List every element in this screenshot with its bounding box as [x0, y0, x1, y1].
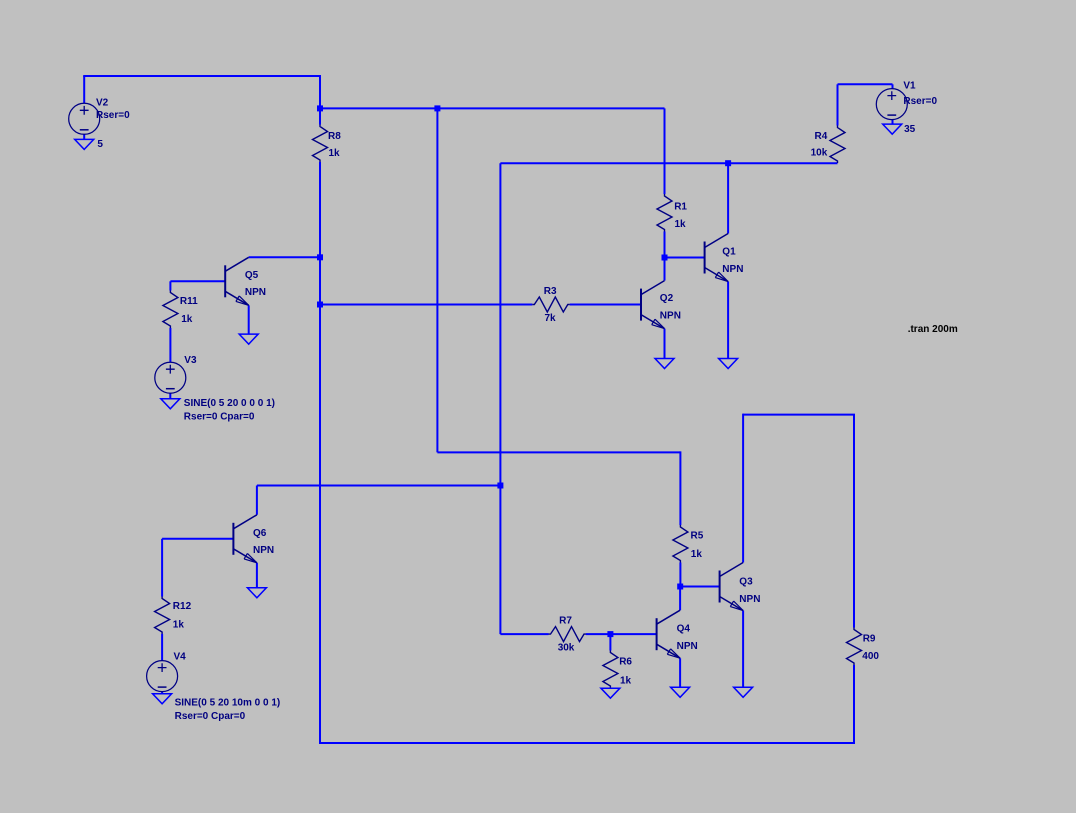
resistor R3 — [532, 297, 570, 312]
wire Q3 collector lead — [742, 414, 744, 563]
svg-text:Rser=0 Cpar=0: Rser=0 Cpar=0 — [175, 711, 246, 722]
svg-text:V2: V2 — [96, 97, 109, 108]
svg-text:R9: R9 — [863, 633, 876, 644]
ground Q5 emitter — [239, 334, 258, 344]
wire Q4 collector lead — [679, 587, 681, 611]
svg-text:NPN: NPN — [722, 264, 743, 275]
wire Q3 base — [680, 586, 719, 588]
wire Q5 emitter lead — [248, 305, 250, 334]
svg-text:R6: R6 — [619, 657, 632, 668]
resistor R5 — [673, 525, 688, 563]
svg-text:R4: R4 — [815, 131, 828, 142]
svg-text:Q5: Q5 — [245, 270, 259, 281]
node junction R8 top — [317, 105, 323, 111]
node junction Q6 collector — [497, 483, 503, 489]
svg-text:NPN: NPN — [253, 545, 274, 556]
wire V3 ground stem — [169, 393, 171, 399]
wire V4 ground stem — [161, 691, 163, 694]
wire node B vertical x437 — [436, 108, 438, 452]
wire bottom rail — [319, 742, 855, 744]
svg-text:V1: V1 — [903, 81, 916, 92]
node junction x437 top — [434, 105, 440, 111]
svg-text:Q1: Q1 — [722, 247, 736, 258]
wire R11 top lead — [169, 281, 171, 290]
node junction R7-R6-Q4 — [607, 631, 613, 637]
svg-text:R5: R5 — [691, 531, 704, 542]
svg-text:Rser=0 Cpar=0: Rser=0 Cpar=0 — [184, 411, 255, 422]
svg-text:R1: R1 — [674, 202, 687, 213]
svg-text:R8: R8 — [328, 131, 341, 142]
svg-text:Rser=0: Rser=0 — [96, 110, 130, 121]
transistor Q3 — [720, 563, 744, 611]
svg-text:NPN: NPN — [677, 641, 698, 652]
svg-text:10k: 10k — [811, 147, 828, 158]
svg-text:V4: V4 — [174, 652, 187, 663]
wire Q5 collector to node — [249, 256, 320, 258]
svg-text:R11: R11 — [180, 296, 198, 307]
svg-text:Q4: Q4 — [677, 623, 691, 634]
wire R4 top lead — [837, 84, 839, 125]
wire Q1 collector lead — [727, 163, 729, 233]
resistor R1 — [657, 194, 672, 232]
node junction Q1 collector — [725, 160, 731, 166]
voltage source V1 — [876, 89, 907, 120]
wire Q6 collector horizontal — [257, 485, 501, 487]
ground Q3 emitter — [734, 687, 753, 697]
ground V2 — [75, 139, 94, 149]
node junction R5-Q4-Q3 — [677, 584, 683, 590]
transistor Q5 — [225, 257, 249, 305]
wire R12 top lead — [161, 539, 163, 597]
svg-text:R12: R12 — [173, 601, 192, 612]
wire R1 bottom lead — [664, 232, 666, 258]
wire R9 bottom lead — [853, 665, 855, 744]
wire Q5 base — [170, 280, 225, 282]
resistor R8 — [313, 125, 328, 163]
resistor R11 — [163, 291, 178, 329]
wire Q1 base — [665, 257, 705, 259]
wire Q6 emitter lead — [256, 563, 258, 588]
wire Q3 emitter lead — [742, 611, 744, 688]
svg-text:1k: 1k — [329, 148, 341, 159]
transistor Q2 — [641, 281, 665, 329]
svg-text:NPN: NPN — [660, 310, 681, 321]
svg-text:Q6: Q6 — [253, 528, 267, 539]
wire horizontal to R5 branch — [437, 451, 680, 453]
svg-text:Rser=0: Rser=0 — [903, 96, 937, 107]
ground Q4 emitter — [671, 687, 690, 697]
svg-text:5: 5 — [97, 139, 103, 150]
svg-text:400: 400 — [862, 651, 879, 662]
wire Q6 collector lead — [256, 486, 258, 515]
wire R5 bottom lead — [679, 563, 681, 587]
wire V2 top lead — [83, 76, 85, 104]
wire R9 top lead — [853, 415, 855, 628]
wire left tall vertical R8 to bottom rail — [319, 162, 321, 744]
wire node to R3 left lead — [320, 304, 532, 306]
svg-text:1k: 1k — [181, 314, 193, 325]
ground R6 — [601, 688, 620, 698]
resistor R4 — [830, 126, 845, 164]
wire V1 top lead — [892, 84, 894, 88]
wire V2 ground stem — [83, 134, 85, 139]
svg-text:V3: V3 — [184, 355, 197, 366]
wire down into R8 — [319, 75, 321, 125]
wire Q1 row horizontal to R4 — [500, 162, 837, 164]
transistor Q4 — [657, 610, 681, 658]
svg-text:Q2: Q2 — [660, 293, 674, 304]
svg-text:35: 35 — [904, 124, 916, 135]
wire R3 right to Q2 base — [570, 304, 641, 306]
ground Q6 emitter — [247, 588, 266, 598]
resistor R6 — [603, 651, 618, 689]
svg-text:.tran 200m: .tran 200m — [908, 324, 958, 335]
svg-text:7k: 7k — [545, 313, 557, 324]
svg-text:SINE(0 5 20 0 0 0 1): SINE(0 5 20 0 0 0 1) — [184, 398, 275, 409]
wire Q3 top horizontal — [743, 414, 855, 416]
wire R11 bottom to V3 — [169, 328, 171, 362]
wire R1 top lead — [664, 108, 666, 194]
svg-text:R7: R7 — [559, 616, 572, 627]
svg-text:30k: 30k — [558, 643, 575, 654]
resistor R12 — [155, 597, 170, 635]
node junction R1-Q2-Q1 — [662, 255, 668, 261]
wire Q6 base — [162, 538, 233, 540]
svg-text:1k: 1k — [173, 619, 185, 630]
voltage source V2 — [69, 103, 100, 134]
wire R6 top lead — [609, 634, 611, 650]
wire V1 ground stem — [892, 120, 894, 125]
wire R7 right to Q4 base — [586, 633, 657, 635]
wire R12 bottom to V4 — [161, 634, 163, 661]
wire Q2 collector lead — [664, 258, 666, 281]
svg-text:R3: R3 — [544, 286, 557, 297]
wire Q2 emitter lead — [664, 329, 666, 359]
node junction Q2 base row — [317, 302, 323, 308]
ground Q1 emitter — [719, 359, 738, 369]
node junction Q5 collector — [317, 254, 323, 260]
ground V1 — [883, 124, 902, 134]
ground V3 — [161, 399, 180, 409]
svg-text:1k: 1k — [620, 676, 632, 687]
wire Q1 emitter lead — [727, 282, 729, 359]
svg-text:NPN: NPN — [739, 594, 760, 605]
resistor R7 — [549, 627, 587, 642]
transistor Q1 — [705, 234, 729, 282]
voltage source V3 — [155, 362, 186, 393]
svg-text:Q3: Q3 — [739, 577, 753, 588]
ground V4 — [153, 694, 172, 704]
svg-text:NPN: NPN — [245, 287, 266, 298]
voltage source V4 — [147, 661, 178, 692]
svg-text:1k: 1k — [691, 549, 703, 560]
wire R7 left lead — [500, 633, 548, 635]
svg-text:SINE(0 5 20 10m 0 0 1): SINE(0 5 20 10m 0 0 1) — [175, 697, 281, 708]
wire node A horizontal to R1 branch — [320, 107, 665, 109]
wire Q4 emitter lead — [679, 658, 681, 687]
transistor Q6 — [233, 515, 257, 563]
svg-text:1k: 1k — [675, 219, 687, 230]
wire R5 top lead — [679, 451, 681, 525]
resistor R9 — [847, 628, 862, 666]
wire top horizontal V2 to R8 node — [83, 75, 320, 77]
wire mid tall vertical x500 — [499, 163, 501, 634]
ground Q2 emitter — [655, 359, 674, 369]
wire V1 top horizontal — [838, 83, 893, 85]
